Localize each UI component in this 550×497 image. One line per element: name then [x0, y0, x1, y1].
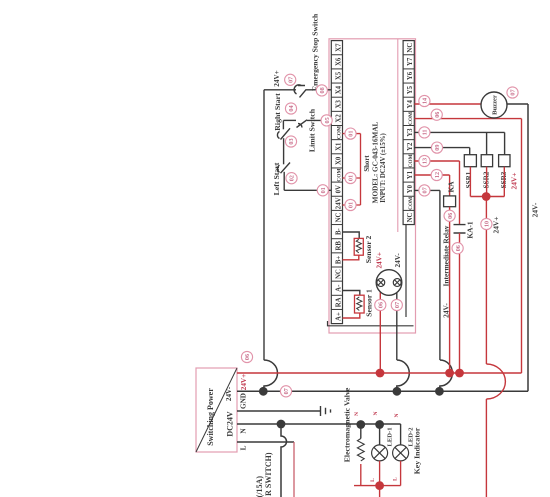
- wire connector 24V+ red feed: [379, 287, 381, 374]
- node 02 wire number: [286, 173, 297, 184]
- svg-text:Limit Switch: Limit Switch: [308, 108, 317, 152]
- svg-text:RA: RA: [335, 297, 342, 307]
- svg-text:Y1: Y1: [407, 170, 414, 179]
- svg-text:03: 03: [288, 138, 295, 144]
- node 07 wire number: [285, 74, 296, 85]
- PLC input terminal strip (A+ RA A- NC B+ RB B- NC 24V 0V COM X0 X1 COM X2 X3 X4 X5 X6 X7)', pins: [331, 41, 342, 324]
- svg-text:04: 04: [288, 105, 295, 111]
- PLC output terminal strip (NC COM Y0 Y1 COM Y2 Y3 COM Y4 Y5 Y6 Y7 NC), pins: [403, 41, 414, 225]
- wire KA-1 right: [459, 161, 461, 225]
- svg-text:14: 14: [422, 98, 429, 104]
- sensor S2 coil zigzag: [356, 239, 361, 253]
- buzzer circle: [481, 92, 507, 118]
- svg-text:INPUT: DC24V (±15%): INPUT: DC24V (±15%): [380, 133, 387, 203]
- svg-text:07: 07: [283, 388, 290, 394]
- node 01 at COM2: [345, 128, 356, 139]
- wire Y3 output black: [414, 131, 504, 133]
- svg-text:KA-1: KA-1: [466, 221, 475, 239]
- wire short riser to COM: [343, 177, 361, 179]
- connector plug outer circle: [376, 270, 402, 296]
- svg-text:GND: GND: [240, 393, 248, 409]
- wire limit switch riser lower: [307, 119, 331, 121]
- wire LED1 return red: [379, 461, 381, 486]
- relay contact KA-1: [454, 225, 466, 233]
- wire 24V+ rail vertical: [237, 372, 522, 374]
- wire chain corner: [282, 120, 284, 129]
- svg-text:X3: X3: [335, 100, 342, 109]
- limit switch symbol: [297, 120, 308, 128]
- node junction on 24V- rail: [393, 387, 402, 396]
- node junction Y0 on 24V- rail: [435, 387, 444, 396]
- wire KA-1 left to 24V+: [459, 233, 461, 373]
- wire emergency stop riser: [264, 89, 296, 91]
- svg-text:06: 06: [244, 354, 251, 360]
- svg-text:Y2: Y2: [407, 142, 414, 151]
- svg-text:NC: NC: [335, 212, 342, 222]
- svg-text:01: 01: [348, 202, 355, 208]
- node 03 wire number: [285, 136, 296, 147]
- PLC body bottom edge: [405, 225, 407, 317]
- lamp LED-2 crossed circle: [393, 445, 409, 461]
- wire SSR3 return: [503, 167, 505, 197]
- svg-text:N: N: [394, 413, 400, 417]
- wire 24V- bus horizontal: [263, 90, 265, 361]
- svg-text:COM: COM: [408, 197, 414, 210]
- pushbutton right start switch: [277, 128, 290, 139]
- svg-text:COM: COM: [336, 168, 342, 181]
- wire SSR return red vertical: [470, 196, 504, 198]
- wire sensor1 red lead from A+: [343, 313, 360, 318]
- wire N corner to LED2: [400, 424, 402, 445]
- wire N to power switch with hop over L: [281, 424, 287, 497]
- solid state relay SSR3 box: [499, 155, 510, 167]
- svg-text:13: 13: [422, 158, 429, 164]
- svg-text:24V-: 24V-: [225, 386, 233, 401]
- wire Y4 output red to buzzer: [414, 103, 481, 105]
- wire 24V+ rail bottom run: [521, 119, 523, 373]
- svg-text:11: 11: [422, 129, 429, 135]
- wire Y0 output black: [414, 189, 440, 191]
- node N junction to power switch: [277, 420, 286, 429]
- wire SSR bus double hop over rails: [486, 364, 505, 399]
- svg-text:X1: X1: [335, 142, 342, 151]
- node red junction KA-1 on rail: [455, 369, 464, 378]
- svg-text:L: L: [370, 478, 376, 482]
- svg-text:RB: RB: [335, 241, 342, 251]
- svg-text:NC: NC: [407, 212, 414, 222]
- PLC module GC-043-16MAL outline: [329, 39, 416, 333]
- node 04 wire number: [285, 103, 296, 114]
- node valve feed junction: [356, 420, 365, 429]
- wire limit switch riser: [283, 119, 296, 121]
- wire GND from supply: [237, 410, 320, 412]
- svg-text:06: 06: [455, 245, 462, 251]
- sensor S2 body: [354, 238, 363, 255]
- wire COM output red: [414, 160, 459, 162]
- power supply box: [196, 368, 237, 452]
- node 06 wire number at COM: [431, 109, 442, 120]
- wire Y3 corner to SSR3: [504, 132, 506, 154]
- wire lamp bus exit: [379, 486, 381, 497]
- svg-text:08: 08: [319, 87, 326, 93]
- node 08 wire number: [316, 85, 327, 96]
- svg-text:NC: NC: [335, 269, 342, 279]
- svg-text:01: 01: [348, 175, 355, 181]
- svg-text:N: N: [240, 428, 248, 434]
- wire buzzer return black: [507, 103, 528, 105]
- svg-text:24V+: 24V+: [492, 217, 501, 234]
- node 07 wire number on rail: [280, 386, 291, 397]
- svg-text:L: L: [393, 477, 399, 481]
- svg-text:Y7: Y7: [407, 57, 414, 66]
- wire LED2 return red: [400, 461, 402, 486]
- svg-text:NC: NC: [407, 43, 414, 53]
- svg-text:05: 05: [324, 117, 331, 123]
- svg-text:Key Indicator: Key Indicator: [413, 427, 422, 474]
- svg-text:Emergency Stop Switch: Emergency Stop Switch: [311, 13, 320, 91]
- node 10 wire number: [481, 218, 492, 229]
- node 12 wire number: [431, 169, 442, 180]
- svg-text:Short: Short: [364, 155, 371, 172]
- node 13 wire number: [419, 155, 430, 166]
- ground symbol: [321, 406, 331, 416]
- svg-text:07: 07: [510, 89, 517, 95]
- svg-text:07: 07: [422, 187, 429, 193]
- node 01 at 24V: [345, 199, 356, 210]
- svg-text:X0: X0: [335, 156, 342, 165]
- svg-text:COM: COM: [408, 154, 414, 167]
- svg-text:Right Start: Right Start: [273, 93, 282, 131]
- svg-text:Y4: Y4: [407, 100, 414, 109]
- svg-text:Y3: Y3: [407, 128, 414, 137]
- wire short red bus: [360, 134, 362, 205]
- wire sensor2 red lead from B+: [343, 255, 359, 260]
- connector pin 24V- crossed: [393, 279, 401, 287]
- svg-text:X6: X6: [335, 57, 342, 66]
- wire SSR bus exit left: [485, 399, 487, 497]
- svg-text:24V+: 24V+: [510, 173, 519, 190]
- svg-text:Switching Power: Switching Power: [206, 388, 215, 446]
- wire short riser to COM2: [343, 133, 361, 135]
- svg-text:24V-: 24V-: [394, 253, 402, 268]
- wire valve feed from N: [360, 425, 362, 439]
- wire chain riser to 0V: [284, 189, 331, 191]
- svg-text:L: L: [240, 445, 248, 450]
- svg-text:10: 10: [484, 221, 491, 227]
- wire SSR bus to left: [485, 197, 487, 365]
- svg-text:A+: A+: [335, 312, 342, 321]
- node 06 wire number at KA: [444, 210, 455, 221]
- svg-text:24V+: 24V+: [375, 252, 383, 268]
- svg-text:N: N: [354, 412, 360, 416]
- svg-text:02: 02: [289, 175, 296, 181]
- wire chain mid: [283, 138, 285, 164]
- wire SSR1 return: [469, 167, 471, 197]
- node 06 wire number: [375, 299, 386, 310]
- solid state relay SSR2 box: [481, 155, 492, 167]
- wire L to power switch edge: [293, 442, 295, 497]
- node 01 at COM: [345, 172, 356, 183]
- svg-text:Y5: Y5: [407, 85, 414, 94]
- electromagnetic valve coil zigzag: [357, 439, 364, 461]
- node red junction lamp bus: [375, 481, 384, 490]
- wire chain left: [283, 172, 285, 191]
- wire 24V- rail vertical: [237, 390, 528, 392]
- svg-text:(/15A): (/15A): [255, 476, 264, 497]
- wire Y3 branch to SSR2: [486, 132, 488, 154]
- node 05 wire number: [321, 115, 332, 126]
- wire lamp return red bus: [354, 485, 401, 487]
- PLC outline edge above output strip: [397, 39, 399, 232]
- wire 24V- rail bottom run: [527, 104, 529, 391]
- node red junction KA on rail: [445, 369, 454, 378]
- node 14 wire number: [419, 95, 430, 106]
- relay coil KA box: [444, 196, 456, 207]
- node 07 wire number at Y0: [419, 185, 430, 196]
- pushbutton left start switch: [277, 163, 290, 174]
- svg-text:24V+: 24V+: [240, 374, 248, 390]
- svg-text:01: 01: [348, 131, 355, 137]
- svg-text:B-: B-: [335, 227, 342, 235]
- node 11 wire number: [419, 127, 430, 138]
- wire connector return hop over 24V+ rail: [397, 360, 409, 391]
- svg-text:X5: X5: [335, 71, 342, 80]
- sensor S1 coil zigzag: [357, 297, 362, 311]
- node 09 wire number: [431, 142, 442, 153]
- PLC body left edge: [328, 321, 414, 326]
- svg-text:09: 09: [434, 145, 441, 151]
- power supply diagonal: [196, 368, 237, 452]
- node 06 wire number at supply: [241, 351, 252, 362]
- node 07 wire number: [391, 299, 402, 310]
- connector pin 24V+ crossed: [377, 279, 385, 287]
- wire bus hop over 24V+ rail: [264, 360, 278, 391]
- node red junction on 24V+ rail: [376, 369, 385, 378]
- svg-text:A-: A-: [335, 284, 342, 292]
- wire L from supply: [237, 441, 294, 443]
- svg-text:X4: X4: [335, 85, 342, 94]
- wire short riser to 24V: [343, 204, 361, 206]
- wire LED1 feed: [379, 425, 381, 445]
- wire Y2 corner to SSR1: [469, 148, 471, 155]
- svg-text:24V-: 24V-: [531, 202, 540, 217]
- solid state relay SSR1 box: [464, 155, 476, 167]
- svg-text:24V: 24V: [335, 197, 342, 209]
- lamp LED-1 crossed circle: [372, 445, 388, 461]
- wire sensor2 black lead from B-: [343, 232, 360, 238]
- node LED1 feed junction: [375, 420, 384, 429]
- svg-text:Y6: Y6: [407, 71, 414, 80]
- wire Y1 output red: [414, 174, 449, 176]
- svg-text:KA: KA: [447, 181, 456, 193]
- wire Y0 run to rail: [439, 190, 441, 360]
- svg-text:COM: COM: [336, 126, 342, 139]
- svg-text:SSR1: SSR1: [465, 171, 473, 188]
- node 07 wire number at buzzer: [507, 87, 518, 98]
- svg-text:N: N: [373, 411, 379, 415]
- node 06 wire number at KA-1: [452, 243, 463, 254]
- svg-text:X7: X7: [335, 43, 342, 52]
- node red junction SSR bus: [482, 192, 491, 201]
- wire emergency stop riser lower: [306, 89, 331, 91]
- svg-text:B+: B+: [335, 256, 342, 265]
- wire N from supply: [237, 423, 401, 425]
- svg-text:06: 06: [378, 302, 385, 308]
- svg-text:12: 12: [434, 172, 441, 178]
- svg-text:LED-1: LED-1: [387, 427, 394, 446]
- wire Y0 hop over 24V+ rail: [440, 360, 453, 391]
- svg-text:Sensor 1: Sensor 1: [365, 289, 374, 317]
- svg-text:06: 06: [434, 112, 441, 118]
- node 01 wire number at 0V: [317, 185, 328, 196]
- wire COM 24V+ feed red: [414, 118, 521, 120]
- svg-text:07: 07: [394, 302, 401, 308]
- svg-text:Electromagnetic Valve: Electromagnetic Valve: [343, 387, 352, 462]
- svg-text:0V: 0V: [335, 185, 342, 193]
- svg-text:COM: COM: [408, 112, 414, 125]
- svg-text:DC24V: DC24V: [226, 411, 235, 437]
- wire valve return red: [360, 464, 362, 486]
- svg-text:Buzzer: Buzzer: [492, 95, 499, 115]
- svg-text:MODEL: GC-043-16MAL: MODEL: GC-043-16MAL: [372, 121, 380, 203]
- wire KA coil return to 24V+: [449, 207, 451, 373]
- svg-text:R SWITCH): R SWITCH): [264, 452, 273, 496]
- svg-text:06: 06: [447, 213, 454, 219]
- svg-text:07: 07: [287, 77, 294, 83]
- svg-text:X2: X2: [335, 114, 342, 123]
- svg-text:01: 01: [320, 187, 327, 193]
- svg-text:Y0: Y0: [407, 184, 414, 193]
- svg-text:24V+: 24V+: [273, 70, 281, 86]
- wire Y2 output black: [414, 147, 469, 149]
- wire connector 24V- black return: [396, 287, 398, 361]
- node junction bus to 24V- rail: [259, 387, 268, 396]
- sensor S1 body: [355, 295, 365, 313]
- wire sensor1 black lead from A-: [343, 291, 360, 296]
- svg-text:Left Start: Left Start: [272, 162, 281, 195]
- wire KA coil feed: [449, 175, 451, 196]
- svg-text:Sensor 2: Sensor 2: [364, 236, 373, 264]
- wire SSR2 return: [486, 167, 488, 197]
- pushbutton NC emergency stop switch: [294, 85, 306, 98]
